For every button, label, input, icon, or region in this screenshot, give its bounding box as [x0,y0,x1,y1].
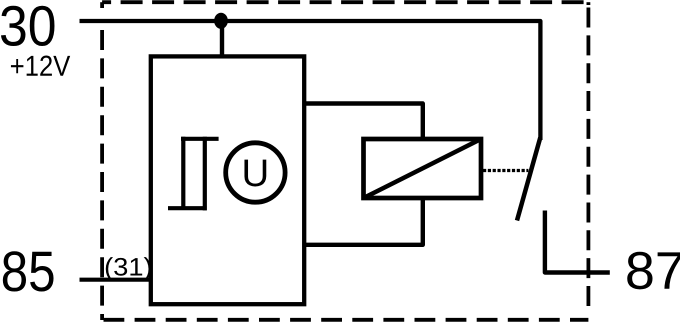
control unit box [151,56,304,304]
label +12V [11,56,70,76]
dashed enclosure border bottom [102,318,588,322]
dashed enclosure border right corner stub [587,2,591,5]
relay coil box [364,139,482,198]
wire terminal 85 [80,278,151,282]
voltage symbol circle [226,143,285,202]
dashed enclosure border left [100,30,104,320]
pulse symbol top line [181,137,219,141]
label (31) [106,257,151,281]
wire switch contact to terminal 87 [545,211,610,273]
switch blade [517,138,540,221]
pulse symbol bottom line [168,206,207,210]
wire control unit to coil upper [304,104,423,140]
letter U [244,160,266,187]
pulse symbol right vertical [203,137,207,211]
terminal label 87 [627,252,680,290]
dotted actuation link [483,169,528,172]
wire control unit to coil lower [304,198,423,245]
dashed enclosure border right [587,8,591,309]
node junction dot [214,13,228,29]
dashed enclosure border top [102,0,588,4]
dashed enclosure border left corner stub [100,2,104,8]
pulse symbol left vertical [181,137,185,209]
terminal label 85 [3,251,54,291]
wire junction to control unit [220,21,224,57]
relay coil diagonal [364,139,482,198]
terminal label 30 [1,6,55,46]
wire terminal 30 to switch [80,21,541,140]
